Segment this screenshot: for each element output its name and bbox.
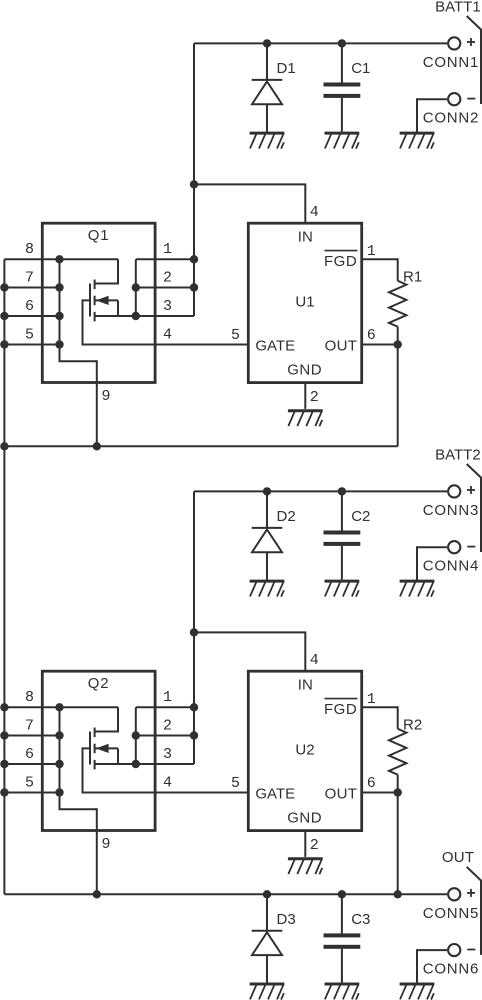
transistor Q1 package xyxy=(42,223,155,382)
wire OUT rail xyxy=(4,893,447,895)
junction riser / U1 IN branch xyxy=(190,180,198,188)
junction drain bus pin 6 xyxy=(55,312,63,320)
svg-text:D1: D1 xyxy=(277,60,296,77)
junction riser / Q2 pin 1 xyxy=(190,703,198,711)
wire Q1 gate lead to pin 4 xyxy=(83,300,249,344)
wire BATT1+ rail xyxy=(194,42,447,44)
capacitor C2 xyxy=(324,491,361,579)
wire Q1 drain bus to pin 9 xyxy=(60,259,97,446)
svg-text:3: 3 xyxy=(163,298,172,315)
wire U1 pin 1 to R1 xyxy=(362,259,398,281)
label CONN2 − xyxy=(467,98,475,100)
junction drain bus pin 8 xyxy=(55,703,63,711)
svg-text:BATT2: BATT2 xyxy=(435,446,481,463)
svg-text:6: 6 xyxy=(25,746,34,763)
junction left rail / Q1 pin 5 xyxy=(0,340,8,348)
wire U2 IN branch xyxy=(194,632,305,671)
svg-text:6: 6 xyxy=(25,298,34,315)
junction left rail / Q1 pin 6 xyxy=(0,312,8,320)
junction source bus pin 3 xyxy=(132,312,140,320)
svg-text:4: 4 xyxy=(310,652,319,669)
wire U1 OUT riser to rail xyxy=(397,345,399,447)
svg-text:1: 1 xyxy=(163,241,172,258)
junction left rail / mid rail xyxy=(0,442,8,450)
ground D3 xyxy=(250,984,285,1000)
ground CONN6 xyxy=(400,984,435,1000)
diode D3 xyxy=(252,894,283,982)
label CONN1 + xyxy=(467,41,475,43)
svg-text:1: 1 xyxy=(163,689,172,706)
label CONN4 − xyxy=(467,546,475,548)
wire BATT2+ rail xyxy=(194,490,447,492)
wire Q1 pin 8 / drain xyxy=(4,258,118,260)
wire Q1 pin 2 xyxy=(136,287,194,289)
svg-text:C3: C3 xyxy=(351,911,370,928)
wire mid rail (drain bus section 1) xyxy=(4,445,397,447)
wire R2 bottom to OUT xyxy=(397,775,399,793)
wire Q2 pin 5 xyxy=(4,792,59,794)
svg-text:CONN3: CONN3 xyxy=(423,502,480,519)
svg-text:FGD: FGD xyxy=(324,253,357,270)
svg-text:BATT1: BATT1 xyxy=(435,0,481,15)
wire CONN4 to ground xyxy=(417,547,447,581)
mosfet Q2 symbol xyxy=(90,707,118,769)
svg-text:GATE: GATE xyxy=(255,337,295,354)
wire Q2 pin 6 xyxy=(4,763,59,765)
wire Q1 source bus xyxy=(135,259,137,316)
transistor Q2 package xyxy=(42,671,155,830)
svg-text:3: 3 xyxy=(163,746,172,763)
wire R1 bottom to OUT xyxy=(397,327,399,345)
op-amp controller U1 xyxy=(248,223,361,382)
wire U1 IN branch xyxy=(194,184,305,223)
ground D2 xyxy=(250,581,285,597)
junction source bus pin 2 xyxy=(132,283,140,291)
wire Q2 pin 2 xyxy=(136,735,194,737)
label CONN6 − xyxy=(467,949,475,951)
wire Q1 pin 6 xyxy=(4,315,59,317)
junction left rail / Q2 pin 7 xyxy=(0,731,8,739)
junction left rail / Q2 pin 8 xyxy=(0,703,8,711)
svg-text:FGD: FGD xyxy=(324,701,357,718)
junction drain bus pin 8 xyxy=(55,255,63,263)
junction D1 top xyxy=(263,39,271,47)
svg-text:CONN1: CONN1 xyxy=(423,54,480,71)
svg-text:CONN6: CONN6 xyxy=(423,961,480,978)
junction Q1 pin 9 / mid rail xyxy=(93,442,101,450)
ground C2 xyxy=(325,581,360,597)
junction left rail / Q2 pin 6 xyxy=(0,760,8,768)
svg-text:IN: IN xyxy=(298,228,313,245)
connector CONN5 pin xyxy=(448,888,460,900)
svg-text:R1: R1 xyxy=(403,269,422,286)
wire Q1 pin 1 xyxy=(136,258,194,260)
wire U1 GND pin 2 xyxy=(304,383,306,409)
svg-text:C2: C2 xyxy=(351,508,370,525)
svg-text:C1: C1 xyxy=(351,60,370,77)
svg-text:9: 9 xyxy=(101,836,110,853)
svg-text:OUT: OUT xyxy=(325,785,358,802)
svg-text:R2: R2 xyxy=(403,717,422,734)
svg-text:GND: GND xyxy=(287,362,322,379)
svg-text:4: 4 xyxy=(310,204,319,221)
ground C1 xyxy=(325,133,360,149)
junction drain bus pin 7 xyxy=(55,283,63,291)
svg-text:7: 7 xyxy=(25,717,34,734)
svg-text:CONN5: CONN5 xyxy=(423,905,480,922)
wire Q2 pin 3 / source xyxy=(95,763,194,765)
junction C1 top xyxy=(338,39,346,47)
wire Q2 drain bus to pin 9 xyxy=(60,707,97,894)
battery BATT2 bracket xyxy=(467,464,481,552)
battery BATT1 bracket xyxy=(467,16,481,104)
connector CONN2 pin xyxy=(448,93,460,105)
wire Q2 pin 8 / drain xyxy=(4,706,118,708)
wire Q2 source bus xyxy=(135,707,137,764)
svg-text:Q2: Q2 xyxy=(88,675,110,692)
svg-text:9: 9 xyxy=(101,388,110,405)
wire Q1 pin 7 xyxy=(4,287,59,289)
wire U2 OUT riser to rail xyxy=(397,793,399,895)
svg-text:8: 8 xyxy=(25,241,34,258)
diode D2 xyxy=(252,491,283,579)
svg-text:OUT: OUT xyxy=(442,849,475,866)
ground U2 xyxy=(288,859,323,875)
wire CONN6 to ground xyxy=(417,950,447,984)
ground CONN2 xyxy=(400,133,435,149)
svg-text:U2: U2 xyxy=(295,742,314,759)
op-amp controller U2 xyxy=(248,671,361,830)
junction source bus pin 2 xyxy=(132,731,140,739)
capacitor C3 xyxy=(324,894,361,982)
svg-text:IN: IN xyxy=(298,676,313,693)
resistor R2 xyxy=(389,729,406,775)
svg-text:6: 6 xyxy=(367,775,376,792)
mosfet Q1 symbol xyxy=(90,259,118,321)
wire Q2 gate lead to pin 4 xyxy=(83,748,249,792)
wire Q1 pin 3 / source xyxy=(95,315,194,317)
junction drain bus pin 6 xyxy=(55,760,63,768)
junction Q2 pin 9 / OUT rail xyxy=(93,890,101,898)
junction left rail / Q2 pin 5 xyxy=(0,788,8,796)
junction left rail / Q1 pin 7 xyxy=(0,283,8,291)
svg-text:U1: U1 xyxy=(295,294,314,311)
svg-text:5: 5 xyxy=(231,775,240,792)
svg-text:4: 4 xyxy=(163,774,172,791)
junction riser / U2 IN branch xyxy=(190,628,198,636)
junction D3 top xyxy=(263,890,271,898)
label CONN3 + xyxy=(467,489,475,491)
wire U2 GND pin 2 xyxy=(304,831,306,857)
wire drain/output left rail xyxy=(3,259,5,894)
resistor R1 xyxy=(389,281,406,327)
svg-text:7: 7 xyxy=(25,269,34,286)
wire BATT2+ riser to Q2 source pins xyxy=(193,491,195,764)
svg-text:5: 5 xyxy=(25,774,34,791)
diode D1 xyxy=(252,43,283,131)
wire U2 OUT pin 6 xyxy=(362,792,398,794)
junction D2 top xyxy=(263,487,271,495)
svg-text:GND: GND xyxy=(287,810,322,827)
junction C3 top xyxy=(338,890,346,898)
junction U2 OUT / R2 xyxy=(394,788,402,796)
svg-text:2: 2 xyxy=(310,389,319,406)
junction C2 top xyxy=(338,487,346,495)
wire U2 pin 1 to R2 xyxy=(362,707,398,729)
svg-text:1: 1 xyxy=(367,243,376,260)
ground U1 xyxy=(288,411,323,427)
output connector bracket xyxy=(467,867,481,955)
junction riser / Q2 pin 2 xyxy=(190,731,198,739)
svg-text:D3: D3 xyxy=(277,911,296,928)
svg-text:OUT: OUT xyxy=(325,337,358,354)
wire BATT1+ riser to Q1 source pins xyxy=(193,43,195,316)
svg-text:2: 2 xyxy=(163,717,172,734)
ground C3 xyxy=(325,984,360,1000)
svg-text:1: 1 xyxy=(367,691,376,708)
junction U2 OUT riser / OUT rail xyxy=(394,890,402,898)
capacitor C1 xyxy=(324,43,361,131)
wire CONN2 to ground xyxy=(417,99,447,133)
svg-text:8: 8 xyxy=(25,689,34,706)
connector CONN3 pin xyxy=(448,485,460,497)
wire U1 OUT pin 6 xyxy=(362,344,398,346)
svg-text:2: 2 xyxy=(310,837,319,854)
svg-text:4: 4 xyxy=(163,326,172,343)
junction riser / Q1 pin 2 xyxy=(190,283,198,291)
ground CONN4 xyxy=(400,581,435,597)
connector CONN4 pin xyxy=(448,541,460,553)
svg-text:5: 5 xyxy=(25,326,34,343)
svg-text:2: 2 xyxy=(163,269,172,286)
junction U1 OUT / R1 xyxy=(394,340,402,348)
svg-text:CONN2: CONN2 xyxy=(423,110,480,127)
svg-text:CONN4: CONN4 xyxy=(423,558,480,575)
wire Q1 pin 5 xyxy=(4,344,59,346)
svg-text:GATE: GATE xyxy=(255,785,295,802)
junction drain bus pin 7 xyxy=(55,731,63,739)
svg-text:D2: D2 xyxy=(277,508,296,525)
connector CONN1 pin xyxy=(448,37,460,49)
svg-text:6: 6 xyxy=(367,327,376,344)
junction drain bus pin 5 xyxy=(55,788,63,796)
label CONN5 + xyxy=(467,892,475,894)
svg-text:5: 5 xyxy=(231,327,240,344)
junction drain bus pin 5 xyxy=(55,340,63,348)
connector CONN6 pin xyxy=(448,944,460,956)
wire Q2 pin 1 xyxy=(136,706,194,708)
junction riser / Q1 pin 1 xyxy=(190,255,198,263)
svg-text:Q1: Q1 xyxy=(88,227,110,244)
junction source bus pin 3 xyxy=(132,760,140,768)
wire Q2 pin 7 xyxy=(4,735,59,737)
ground D1 xyxy=(250,133,285,149)
